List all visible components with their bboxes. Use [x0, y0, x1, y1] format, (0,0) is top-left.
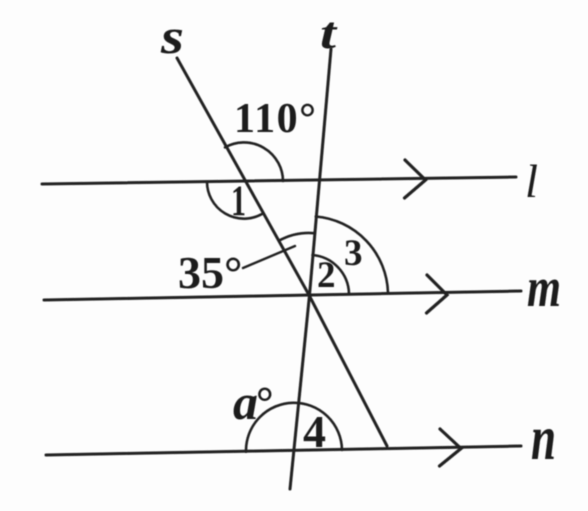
angle arc a and 4 at t x n — [246, 403, 342, 452]
svg-text:a: a — [233, 374, 258, 430]
transversal s — [177, 58, 387, 446]
leader line for 35 label — [243, 246, 295, 268]
svg-text:2: 2 — [317, 255, 336, 296]
arrow on line n — [440, 429, 462, 466]
svg-text:t: t — [320, 7, 338, 58]
svg-text:n: n — [531, 402, 556, 473]
svg-text:s: s — [160, 8, 184, 64]
arrow on line l — [405, 160, 426, 198]
svg-text:°: ° — [256, 378, 274, 427]
angle arc 3 outer at vertex — [316, 217, 388, 293]
angle arc 1 at s x l — [207, 182, 262, 219]
angle arc 35 between s and t — [279, 233, 315, 241]
angle arc 2 inner at vertex — [313, 255, 350, 294]
svg-text:l: l — [525, 156, 538, 208]
line n — [46, 446, 521, 455]
line m — [44, 291, 521, 300]
svg-text:110°: 110° — [234, 96, 317, 142]
svg-text:35°: 35° — [178, 247, 242, 298]
svg-text:4: 4 — [303, 406, 326, 457]
angle arc 110 at s x l — [225, 142, 283, 181]
transversal t — [290, 49, 331, 489]
line l — [42, 177, 516, 184]
svg-text:1: 1 — [231, 178, 246, 225]
arrow on line m — [427, 275, 448, 313]
svg-text:3: 3 — [344, 233, 363, 274]
svg-text:m: m — [527, 257, 561, 319]
